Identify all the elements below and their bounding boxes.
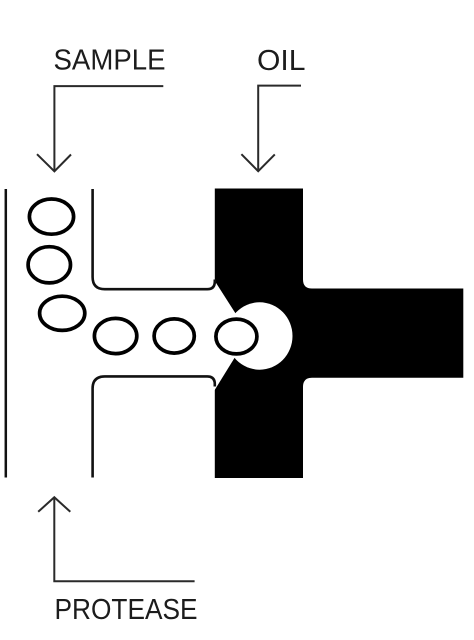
- wall inner top (sample channel to junction): [93, 189, 215, 289]
- nozzle wedge (white cut): [214, 279, 249, 391]
- droplet C3: [40, 296, 85, 330]
- wall left outer line: [5, 189, 8, 478]
- droplet C1: [29, 199, 73, 234]
- droplet E3 at junction: [216, 319, 257, 354]
- svg-text:OIL: OIL: [257, 45, 306, 77]
- wall inner bottom (protease channel to junction): [93, 376, 215, 477]
- droplet chamber circle (white cut): [227, 302, 293, 369]
- arrow PROTEASE (up): [38, 497, 194, 581]
- svg-text:SAMPLE: SAMPLE: [54, 45, 166, 77]
- arrow SAMPLE (down): [37, 86, 163, 171]
- droplet E1: [94, 318, 136, 353]
- oil cross channel (black): [215, 189, 463, 479]
- droplet C2: [28, 247, 70, 283]
- droplet E2: [154, 319, 194, 353]
- arrow OIL (down): [241, 86, 301, 172]
- svg-text:PROTEASE: PROTEASE: [55, 594, 198, 626]
